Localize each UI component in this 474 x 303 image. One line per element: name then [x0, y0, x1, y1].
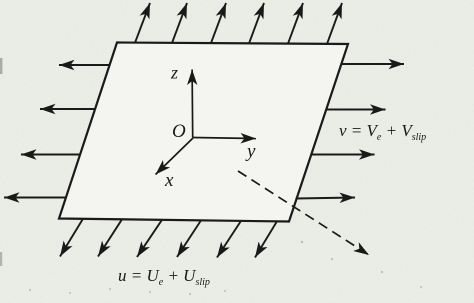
- y axis: [193, 138, 256, 139]
- left flow arrow 2: [40, 108, 95, 110]
- right flow arrow 2: [326, 109, 385, 111]
- dashed streamline arrow: [238, 171, 369, 255]
- flat plate (parallelogram): [59, 43, 348, 222]
- left flow arrow 4: [4, 197, 66, 199]
- bottom arrow 1: [60, 219, 83, 257]
- scan smudge left edge 1: [0, 58, 2, 74]
- svg-text:z: z: [170, 63, 178, 83]
- left flow arrow 3: [21, 154, 80, 156]
- svg-text:O: O: [172, 121, 186, 142]
- right flow arrow 3: [311, 154, 374, 156]
- z axis: [191, 70, 194, 138]
- scan smudge left edge 2: [0, 252, 2, 266]
- right flow arrow 1: [342, 63, 404, 65]
- top suction arrow 2: [172, 3, 187, 43]
- top suction arrow 3: [211, 3, 226, 43]
- bottom arrow 2: [98, 219, 122, 256]
- bottom arrow 3: [137, 220, 162, 257]
- left flow arrow 1: [59, 64, 110, 66]
- bottom arrow 5: [217, 221, 241, 258]
- bottom arrow 6: [255, 221, 277, 257]
- svg-text:y: y: [245, 141, 256, 162]
- scan speckles bottom band: [29, 241, 422, 295]
- top suction arrow 6: [327, 3, 342, 44]
- right flow arrow 4: [296, 198, 356, 199]
- x axis: [156, 138, 194, 175]
- svg-text:x: x: [164, 170, 174, 191]
- bottom arrow 4: [177, 220, 201, 257]
- top suction arrow 1: [135, 3, 150, 43]
- top suction arrow 4: [249, 3, 264, 43]
- top suction arrow 5: [288, 3, 303, 44]
